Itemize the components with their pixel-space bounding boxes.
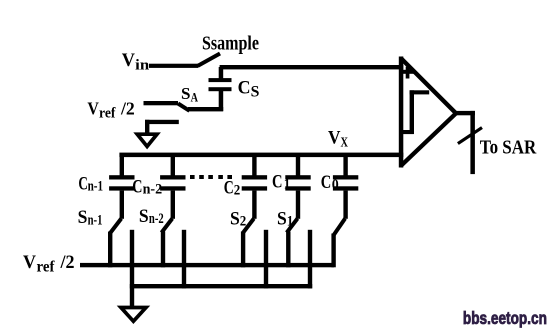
ground top symbol <box>137 134 157 146</box>
svg-text:C: C <box>132 177 142 198</box>
bus slash mark <box>458 128 482 144</box>
svg-text:V: V <box>87 98 99 118</box>
svg-text:n-1: n-1 <box>88 212 103 228</box>
svg-text:S: S <box>230 208 240 229</box>
svg-text:V: V <box>328 128 341 149</box>
svg-text:/2: /2 <box>120 98 135 118</box>
wire SA to CS bottom <box>188 107 223 111</box>
svg-text:S: S <box>277 208 287 229</box>
wire Vin <box>149 64 198 68</box>
svg-text:C: C <box>238 78 251 99</box>
wire ground stem <box>130 230 134 307</box>
svg-text:S: S <box>78 207 88 228</box>
switch SA blade <box>178 104 190 111</box>
svg-text:V: V <box>23 252 36 273</box>
dotted continuation <box>190 175 195 179</box>
capacitor C1 <box>285 156 310 219</box>
op-amp comparator bottom edge <box>401 113 457 166</box>
svg-text:2: 2 <box>240 214 247 230</box>
switch Sn-1 left contact <box>108 232 112 268</box>
svg-text:C: C <box>321 172 332 193</box>
svg-text:Ssample: Ssample <box>202 33 259 54</box>
wire Vref/2 bus <box>80 263 334 267</box>
capacitor CS <box>219 67 224 79</box>
switch S1 left contact <box>286 232 290 268</box>
svg-text:X: X <box>341 135 349 150</box>
svg-text:n-1: n-1 <box>88 179 104 195</box>
svg-text:S: S <box>251 83 260 100</box>
capacitor Cn-1 <box>109 156 134 219</box>
wire Vref/2 top <box>144 101 179 105</box>
switch S1 blade <box>287 219 298 233</box>
svg-text:C: C <box>78 173 88 194</box>
switch S0 left contact <box>331 234 335 268</box>
switch S2 right contact <box>264 230 268 289</box>
wire top (sample node to comparator +) <box>220 65 404 69</box>
svg-text:ref: ref <box>37 259 56 276</box>
capacitor C2 <box>242 156 267 219</box>
switch Sn-2 right contact <box>182 230 186 289</box>
wire ground L horizontal <box>145 120 179 124</box>
svg-text:1: 1 <box>284 177 291 193</box>
wire Vx bus <box>119 153 403 158</box>
switch Sn-2 left contact <box>161 232 165 268</box>
svg-text:V: V <box>122 50 135 71</box>
wire comparator output <box>455 111 475 115</box>
svg-text:A: A <box>191 90 198 104</box>
svg-text:2: 2 <box>234 183 241 199</box>
switch Ssample blade <box>198 54 221 67</box>
svg-text:S: S <box>139 206 149 227</box>
wire ground bus <box>130 284 312 288</box>
op-amp comparator left edge <box>399 57 404 168</box>
capacitor Cn-2 <box>160 156 185 219</box>
switch S0 blade <box>334 219 345 236</box>
svg-text:C: C <box>272 171 283 192</box>
svg-text:S: S <box>181 84 191 103</box>
switch Sn-2 blade <box>162 219 173 233</box>
svg-text:n-2: n-2 <box>143 182 163 198</box>
switch Sn-1 blade <box>111 219 122 233</box>
switch S1 right contact <box>308 230 312 289</box>
svg-text:To SAR: To SAR <box>480 136 537 158</box>
switch S2 blade <box>243 219 254 233</box>
svg-text:n-2: n-2 <box>149 211 164 227</box>
wire ground L vertical <box>145 120 149 135</box>
svg-text:/2: /2 <box>60 252 75 273</box>
svg-text:ref: ref <box>99 105 116 121</box>
svg-text:bbs.eetop.cn: bbs.eetop.cn <box>463 308 547 328</box>
op-amp comparator top edge <box>401 58 457 114</box>
op-amp plus input mark <box>400 70 414 74</box>
capacitor C0 <box>333 156 358 219</box>
switch S2 left contact <box>241 232 245 268</box>
svg-text:in: in <box>135 58 150 74</box>
op-amp latch step symbol <box>401 130 414 134</box>
svg-text:1: 1 <box>287 214 294 230</box>
svg-text:0: 0 <box>332 177 339 193</box>
svg-text:C: C <box>224 178 234 198</box>
ground bottom symbol <box>121 308 146 322</box>
